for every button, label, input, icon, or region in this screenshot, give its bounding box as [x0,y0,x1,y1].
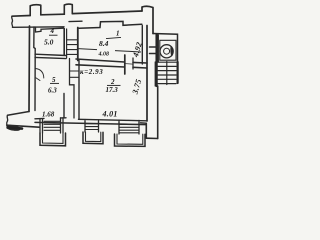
south wall bottom line [35,122,146,124]
svg-text:1.68: 1.68 [42,111,55,119]
dimension leader 4.08 [78,49,141,52]
porch A outer U [40,133,66,146]
room 5 fraction bar [50,82,59,84]
porch B inner U [86,132,101,142]
svg-text:2: 2 [110,78,115,86]
north wall outer line [12,11,142,16]
pilaster P2 top-middle chimney [64,4,72,14]
room 1 north window line (stepped) [79,21,142,28]
svg-text:5.0: 5.0 [44,38,54,47]
east wall outer line [146,26,148,122]
room 5 door arc at west wall [36,69,44,81]
flue rungs lower [70,71,79,77]
stair tower inner box [160,40,176,60]
tower door stubs [150,47,158,54]
tower circle dark wedge [170,46,173,57]
thick dark segment on stub bottom [8,127,22,128]
svg-text:4: 4 [50,27,55,35]
closet west wall [63,94,65,118]
svg-text:6.3: 6.3 [48,87,57,95]
middle wall right segment bottom [76,65,147,68]
porch A left frame [40,119,43,133]
southeast annex east wall [157,86,159,139]
room 4 fraction bar [49,34,58,36]
stair flight left line [154,62,156,86]
southeast annex stub [141,122,147,124]
door jamb in middle wall right [132,58,134,69]
south-west party stub wavy end [7,115,8,125]
porch C steps [119,124,139,132]
porch B steps box [85,121,99,132]
tower west wall thick [155,34,157,86]
flue lower west line with jog [70,59,75,119]
porch A right frame [61,118,64,133]
svg-text:1: 1 [116,30,120,38]
porch B steps [85,124,99,130]
door threshold line [125,63,133,66]
southeast annex west side [145,123,147,138]
room 4 north window line [36,27,64,32]
middle wall left segment bottom [35,57,66,58]
porch A inner U [43,133,64,143]
flue rungs upper [67,40,78,55]
flue block upper west line [66,29,68,58]
svg-text:4.08: 4.08 [98,51,110,57]
flue lower east line [78,61,80,120]
south-west party stub bottom [7,125,39,127]
door jamb in middle wall left [124,55,126,74]
room 4 east wall [63,29,65,56]
flue block upper east line [77,28,79,61]
tower circle outer [160,45,173,58]
svg-text:5: 5 [52,76,56,84]
porch A steps [44,121,60,130]
south-west party stub top [8,112,30,116]
west wall inner [34,27,35,111]
porch B outer U [83,132,103,144]
porch C steps box [119,122,139,134]
room 2 fraction bar [107,84,121,86]
stair tower outer box [153,34,178,63]
tower circle inner [164,48,170,54]
southwest dark smudge [6,125,20,131]
stair treads [158,62,176,83]
pilaster P1 top-left chimney [30,5,41,16]
west wall outer [28,26,31,112]
southeast annex bottom [146,137,157,139]
south wall top line left [35,118,146,121]
svg-text:к=2.93: к=2.93 [80,68,103,76]
pilaster P3 top-right chimney [142,6,153,33]
band inner mark over flue [69,20,82,22]
stair flight right thick line [177,62,179,83]
middle wall right segment top [76,59,147,63]
svg-text:8.4: 8.4 [99,39,109,48]
north wall inner line [13,26,65,29]
east wall inner line [141,26,143,65]
middle wall left segment top [35,54,66,55]
svg-text:17.3: 17.3 [106,86,119,94]
svg-text:4.01: 4.01 [102,110,118,119]
room 1 fraction bar [106,37,121,38]
south wall porch jambs [85,119,139,124]
porch C inner U [117,134,143,144]
porch C outer U [115,134,146,146]
north wall left break (wavy end) [11,16,14,27]
stair central stringer [166,62,168,85]
